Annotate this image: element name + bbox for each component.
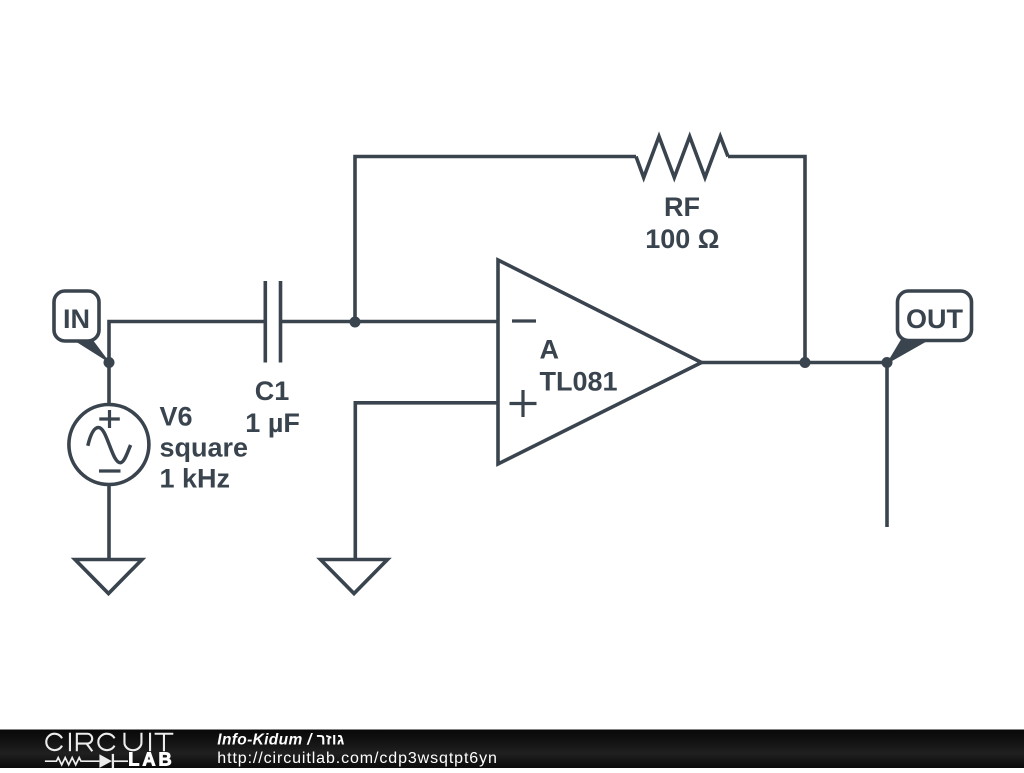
svg-text:1 kHz: 1 kHz <box>160 464 231 494</box>
CircuitLab logo resistor squiggle and diode <box>45 754 128 768</box>
svg-text:LAB: LAB <box>128 749 175 768</box>
op-amp plus input symbol <box>510 390 537 417</box>
voltage source V6 minus mark <box>99 469 121 472</box>
svg-text:A: A <box>540 334 560 364</box>
wire op-amp plus input horizontal and down to ground <box>355 403 498 560</box>
wire V6 bottom stem <box>107 484 111 560</box>
svg-text:RF: RF <box>664 192 700 222</box>
CircuitLab logo CIRCUIT <box>46 733 173 752</box>
CircuitLab logo diode triangle <box>99 754 112 768</box>
net flag IN box <box>54 291 99 341</box>
voltage source V6 circle <box>69 405 149 485</box>
junction dot at RF/output <box>800 357 811 368</box>
capacitor C1 <box>265 281 280 363</box>
junction dot at IN <box>104 357 115 368</box>
voltage source V6 sine wave <box>88 428 131 463</box>
ground (op-amp plus input) <box>321 560 388 594</box>
svg-text:Info-Kidum / גוזר: Info-Kidum / גוזר <box>217 731 345 748</box>
wire op-amp output and dangling down <box>701 363 887 528</box>
voltage source V6 plus mark <box>99 410 120 428</box>
wire node to op-amp minus input <box>355 320 498 324</box>
op-amp minus input symbol <box>512 319 536 322</box>
svg-text:TL081: TL081 <box>540 367 618 397</box>
net flag IN pointer <box>73 340 111 364</box>
wire node up to feedback top left segment <box>355 157 636 322</box>
svg-text:100 Ω: 100 Ω <box>645 224 719 254</box>
wire input horizontal IN to C1 and down to V6 <box>109 322 265 405</box>
op-amp A TL081 <box>498 260 702 464</box>
svg-text:http://circuitlab.com/cdp3wsqt: http://circuitlab.com/cdp3wsqtpt6yn <box>217 750 498 767</box>
resistor RF <box>636 137 728 178</box>
svg-text:1 µF: 1 µF <box>245 408 300 438</box>
svg-text:C1: C1 <box>255 376 290 406</box>
wire feedback resistor to corner and right vertical <box>728 157 805 363</box>
junction dot at OUT <box>882 357 893 368</box>
svg-text:V6: V6 <box>160 401 193 431</box>
wire C1 right plate to node <box>281 320 356 324</box>
net flag OUT box <box>898 291 972 341</box>
junction dot at C1/op-amp node <box>350 317 361 328</box>
svg-text:square: square <box>160 433 249 463</box>
ground (V6) <box>75 560 142 594</box>
svg-text:IN: IN <box>63 304 90 334</box>
svg-text:OUT: OUT <box>906 304 964 334</box>
footer bar <box>0 730 1024 769</box>
net flag OUT pointer <box>886 340 930 365</box>
